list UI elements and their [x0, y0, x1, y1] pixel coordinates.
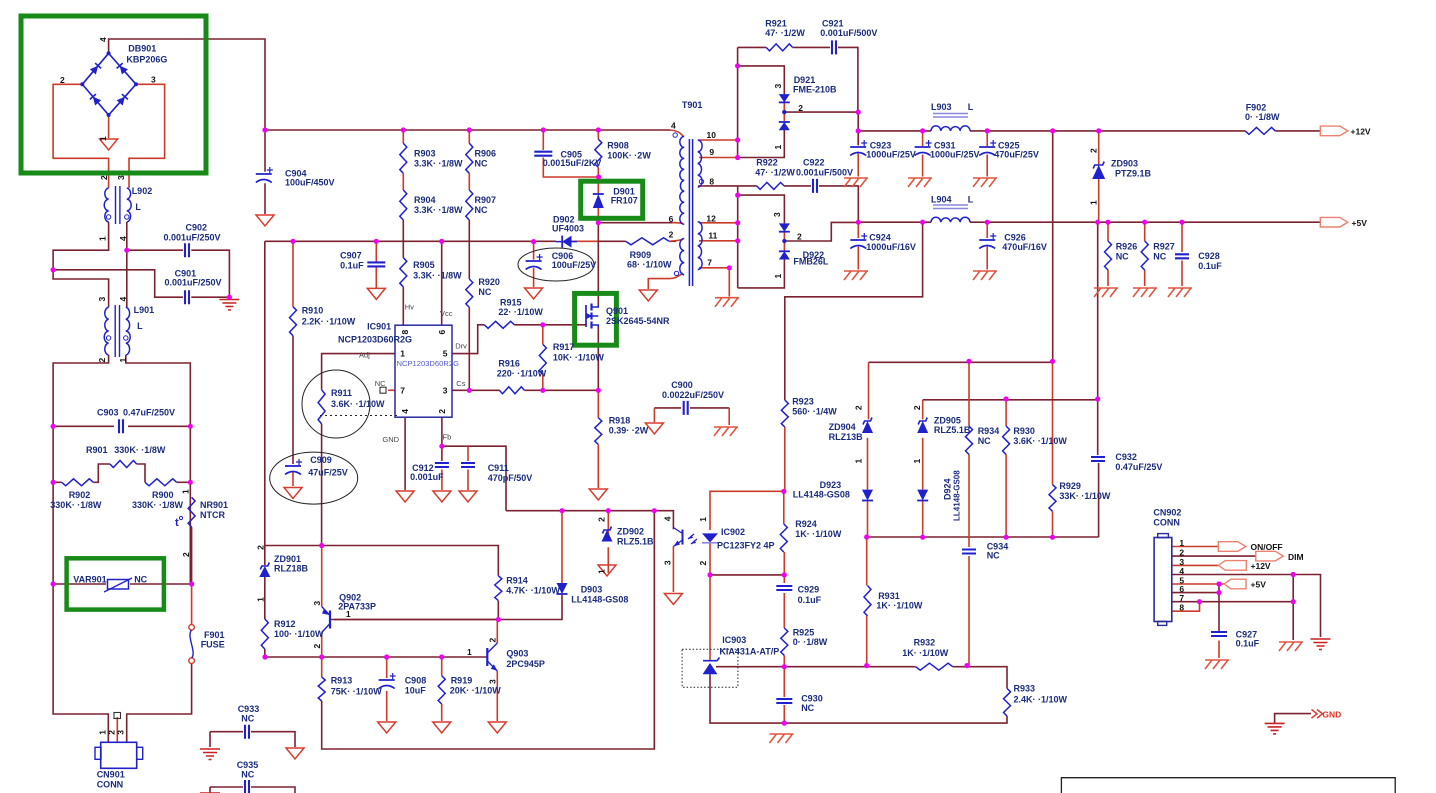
svg-text:3: 3	[151, 75, 156, 85]
svg-text:0.1uF: 0.1uF	[340, 261, 364, 271]
svg-text:R917: R917	[553, 342, 575, 352]
svg-text:NC: NC	[475, 205, 488, 215]
svg-text:1: 1	[1179, 538, 1184, 548]
svg-text:Adj: Adj	[359, 351, 370, 360]
svg-text:ZD903: ZD903	[1111, 158, 1138, 168]
svg-text:C924: C924	[869, 232, 891, 242]
svg-text:F901: F901	[204, 630, 225, 640]
svg-text:3.3K· ·1/8W: 3.3K· ·1/8W	[413, 270, 462, 280]
svg-text:10: 10	[707, 130, 717, 140]
svg-text:IC903: IC903	[722, 635, 746, 645]
svg-text:Vcc: Vcc	[440, 309, 453, 318]
svg-text:R920: R920	[478, 277, 500, 287]
svg-text:1: 1	[181, 489, 191, 494]
svg-text:1: 1	[773, 145, 783, 150]
svg-text:0.47uF/250V: 0.47uF/250V	[123, 408, 175, 418]
svg-text:3.6K· ·1/10W: 3.6K· ·1/10W	[1013, 436, 1067, 446]
svg-text:8: 8	[1179, 603, 1184, 613]
svg-text:560· ·1/4W: 560· ·1/4W	[792, 406, 837, 416]
svg-text:Fb: Fb	[443, 433, 452, 442]
svg-text:10K· ·1/10W: 10K· ·1/10W	[553, 353, 605, 363]
svg-text:+12V: +12V	[1251, 561, 1271, 571]
svg-text:100· ·1/10W: 100· ·1/10W	[274, 629, 324, 639]
svg-text:0.0022uF/250V: 0.0022uF/250V	[662, 390, 724, 400]
svg-text:0.0015uF/2KV: 0.0015uF/2KV	[543, 158, 602, 168]
svg-text:FR107: FR107	[611, 196, 638, 206]
svg-text:20K· ·1/10W: 20K· ·1/10W	[450, 686, 502, 696]
svg-text:CONN: CONN	[1153, 518, 1180, 528]
svg-text:LL4148-GS08: LL4148-GS08	[793, 490, 850, 500]
svg-text:1: 1	[773, 274, 783, 279]
svg-text:2: 2	[912, 405, 922, 410]
svg-text:R930: R930	[1013, 426, 1035, 436]
svg-text:C933: C933	[238, 704, 260, 714]
svg-text:Q901: Q901	[606, 306, 628, 316]
svg-text:47uF/25V: 47uF/25V	[308, 467, 348, 477]
svg-text:2: 2	[797, 232, 802, 242]
svg-text:R927: R927	[1153, 242, 1175, 252]
svg-text:2: 2	[60, 75, 65, 85]
svg-text:L901: L901	[134, 305, 155, 315]
svg-text:NCP1203D60R2G: NCP1203D60R2G	[397, 359, 460, 368]
svg-text:75K· ·1/10W: 75K· ·1/10W	[331, 687, 383, 697]
svg-text:R918: R918	[609, 415, 631, 425]
svg-text:3: 3	[97, 297, 107, 302]
svg-text:2: 2	[97, 358, 107, 363]
svg-text:2: 2	[798, 103, 803, 113]
svg-text:2: 2	[487, 638, 497, 643]
svg-text:R923: R923	[792, 397, 814, 407]
svg-text:1: 1	[698, 517, 708, 522]
svg-text:RLZ5.1B: RLZ5.1B	[934, 425, 971, 435]
svg-text:0.1uF: 0.1uF	[798, 595, 822, 605]
svg-text:Hv: Hv	[405, 303, 414, 312]
svg-text:NC: NC	[241, 770, 254, 780]
svg-text:IC902: IC902	[721, 527, 745, 537]
svg-text:R904: R904	[414, 195, 436, 205]
svg-text:1: 1	[912, 459, 922, 464]
svg-text:4: 4	[663, 516, 673, 521]
svg-text:330K· ·1/8W: 330K· ·1/8W	[114, 445, 166, 455]
svg-text:R934: R934	[978, 426, 1000, 436]
svg-text:R911: R911	[331, 388, 352, 398]
svg-text:KBP206G: KBP206G	[126, 55, 167, 65]
svg-text:R924: R924	[795, 519, 817, 529]
svg-text:47· ·1/2W: 47· ·1/2W	[765, 28, 805, 38]
svg-text:1: 1	[98, 236, 108, 241]
svg-text:2PA733P: 2PA733P	[338, 602, 376, 612]
svg-text:68· ·1/10W: 68· ·1/10W	[627, 260, 672, 270]
svg-text:NC: NC	[987, 551, 1000, 561]
svg-text:KIA431A-AT/P: KIA431A-AT/P	[719, 646, 779, 656]
svg-text:LL4148-GS08: LL4148-GS08	[953, 470, 962, 521]
svg-text:2: 2	[669, 230, 674, 240]
svg-text:VAR901: VAR901	[73, 575, 106, 585]
svg-text:R916: R916	[498, 359, 520, 369]
svg-text:C902: C902	[186, 223, 208, 233]
svg-text:0.1uF: 0.1uF	[1236, 639, 1260, 649]
svg-text:220· ·1/10W: 220· ·1/10W	[497, 369, 547, 379]
svg-text:R905: R905	[413, 260, 435, 270]
svg-text:R921: R921	[765, 18, 787, 28]
svg-text:2.2K· ·1/10W: 2.2K· ·1/10W	[302, 316, 356, 326]
svg-text:CN901: CN901	[97, 770, 125, 780]
svg-text:7: 7	[400, 385, 405, 395]
svg-text:R933: R933	[1014, 683, 1036, 693]
svg-text:330K· ·1/8W: 330K· ·1/8W	[50, 500, 102, 510]
svg-text:8: 8	[400, 330, 410, 335]
svg-text:NC: NC	[134, 575, 147, 585]
svg-text:1K· ·1/10W: 1K· ·1/10W	[876, 601, 923, 611]
svg-text:2: 2	[1089, 148, 1099, 153]
svg-text:R919: R919	[451, 676, 473, 686]
svg-text:1: 1	[853, 459, 863, 464]
svg-text:t: t	[175, 517, 179, 529]
svg-text:RLZ13B: RLZ13B	[829, 432, 864, 442]
svg-text:2: 2	[698, 561, 708, 566]
svg-text:0.001uF: 0.001uF	[410, 472, 444, 482]
svg-text:L: L	[137, 321, 143, 331]
svg-text:1: 1	[118, 358, 128, 363]
svg-text:R926: R926	[1116, 242, 1138, 252]
svg-text:4: 4	[118, 236, 128, 241]
svg-text:3: 3	[312, 601, 322, 606]
svg-text:R909: R909	[630, 250, 652, 260]
svg-text:C921: C921	[822, 18, 844, 28]
svg-text:2: 2	[99, 175, 109, 180]
svg-text:CONN: CONN	[97, 780, 124, 790]
svg-text:+5V: +5V	[1352, 218, 1368, 228]
svg-text:R912: R912	[274, 619, 296, 629]
svg-text:R932: R932	[914, 638, 936, 648]
svg-text:NC: NC	[475, 158, 488, 168]
svg-text:0.1uF: 0.1uF	[1198, 261, 1222, 271]
svg-text:470pF/50V: 470pF/50V	[488, 473, 533, 483]
svg-text:C903: C903	[97, 408, 119, 418]
svg-text:R922: R922	[756, 158, 778, 168]
svg-text:R908: R908	[607, 141, 629, 151]
svg-text:NC: NC	[1153, 252, 1166, 262]
svg-text:3.6K· ·1/10W: 3.6K· ·1/10W	[331, 399, 385, 409]
svg-text:ZD901: ZD901	[274, 554, 301, 564]
svg-text:RLZ5.1B: RLZ5.1B	[617, 537, 654, 547]
svg-text:NC: NC	[478, 287, 491, 297]
svg-text:UF4003: UF4003	[552, 224, 584, 234]
svg-text:2: 2	[853, 405, 863, 410]
svg-text:3: 3	[663, 560, 673, 565]
svg-text:1: 1	[256, 597, 266, 602]
svg-text:0.001uF/250V: 0.001uF/250V	[165, 277, 222, 287]
svg-text:C900: C900	[671, 380, 693, 390]
svg-text:R914: R914	[506, 576, 528, 586]
svg-text:R903: R903	[414, 148, 436, 158]
svg-text:2PC945P: 2PC945P	[506, 659, 545, 669]
svg-text:Drv: Drv	[455, 342, 467, 351]
svg-text:3.3K· ·1/8W: 3.3K· ·1/8W	[414, 205, 463, 215]
svg-text:R929: R929	[1059, 481, 1081, 491]
svg-text:NC: NC	[241, 714, 254, 724]
svg-text:DIM: DIM	[1288, 552, 1304, 562]
svg-text:R901: R901	[86, 445, 108, 455]
svg-text:3: 3	[487, 679, 497, 684]
svg-text:3.3K· ·1/8W: 3.3K· ·1/8W	[414, 158, 463, 168]
svg-text:FMB26L: FMB26L	[793, 257, 829, 267]
svg-text:IC901: IC901	[367, 321, 391, 331]
svg-text:1: 1	[467, 647, 472, 657]
svg-text:2: 2	[437, 409, 447, 414]
svg-text:+5V: +5V	[1251, 580, 1267, 590]
svg-text:L: L	[135, 202, 141, 212]
svg-text:PC123FY2 4P: PC123FY2 4P	[717, 541, 775, 551]
svg-text:ZD904: ZD904	[829, 422, 856, 432]
svg-text:3: 3	[116, 730, 126, 735]
svg-text:R907: R907	[475, 195, 497, 205]
svg-text:F902: F902	[1246, 102, 1267, 112]
svg-text:4: 4	[118, 297, 128, 302]
svg-text:C935: C935	[237, 760, 259, 770]
svg-text:C930: C930	[801, 694, 823, 704]
svg-text:1K· ·1/10W: 1K· ·1/10W	[902, 648, 949, 658]
svg-text:4.7K· ·1/10W: 4.7K· ·1/10W	[506, 586, 560, 596]
svg-text:RLZ18B: RLZ18B	[274, 564, 309, 574]
svg-text:0.001uF/250V: 0.001uF/250V	[164, 232, 221, 242]
svg-text:NCP1203D60R2G: NCP1203D60R2G	[338, 335, 412, 345]
svg-text:470uF/25V: 470uF/25V	[994, 150, 1039, 160]
svg-text:L: L	[968, 102, 974, 112]
svg-text:NR901: NR901	[200, 500, 228, 510]
svg-text:ON/OFF: ON/OFF	[1251, 542, 1283, 552]
svg-text:DB901: DB901	[128, 43, 156, 53]
svg-text:2: 2	[181, 552, 191, 557]
svg-text:1: 1	[1089, 200, 1099, 205]
svg-text:CN902: CN902	[1153, 508, 1181, 518]
svg-text:0.39· ·2W: 0.39· ·2W	[609, 425, 649, 435]
svg-text:4: 4	[400, 409, 410, 414]
svg-text:1: 1	[597, 569, 607, 574]
svg-text:+12V: +12V	[1351, 127, 1371, 137]
svg-text:2: 2	[312, 644, 322, 649]
svg-text:47· ·1/2W: 47· ·1/2W	[755, 168, 795, 178]
svg-text:1K· ·1/10W: 1K· ·1/10W	[795, 529, 842, 539]
svg-text:0.001uF/500V: 0.001uF/500V	[820, 28, 877, 38]
svg-text:GND: GND	[1322, 710, 1341, 720]
svg-text:C926: C926	[1004, 232, 1026, 242]
svg-text:100uF/450V: 100uF/450V	[285, 178, 335, 188]
svg-text:7: 7	[707, 258, 712, 268]
svg-text:Q903: Q903	[506, 648, 528, 658]
svg-text:6: 6	[437, 330, 447, 335]
svg-text:1000uF/25V: 1000uF/25V	[866, 150, 916, 160]
svg-text:5: 5	[443, 349, 448, 359]
svg-text:L904: L904	[931, 194, 952, 204]
svg-text:C922: C922	[803, 158, 825, 168]
svg-text:11: 11	[708, 231, 717, 241]
svg-text:1000uF/25V: 1000uF/25V	[930, 150, 980, 160]
svg-text:C909: C909	[310, 455, 332, 465]
svg-text:ZD902: ZD902	[617, 527, 644, 537]
svg-text:100uF/25V: 100uF/25V	[552, 260, 597, 270]
svg-text:L903: L903	[931, 102, 952, 112]
svg-text:L902: L902	[132, 186, 153, 196]
svg-text:0· ·1/8W: 0· ·1/8W	[793, 637, 828, 647]
svg-text:R910: R910	[302, 306, 324, 316]
svg-text:3: 3	[443, 385, 448, 395]
svg-text:NTCR: NTCR	[200, 510, 225, 520]
svg-text:4: 4	[671, 121, 676, 131]
svg-text:GND: GND	[382, 435, 399, 444]
svg-text:0.47uF/25V: 0.47uF/25V	[1115, 462, 1162, 472]
svg-text:330K· ·1/8W: 330K· ·1/8W	[132, 500, 184, 510]
svg-text:33K· ·1/10W: 33K· ·1/10W	[1059, 491, 1111, 501]
svg-text:T901: T901	[682, 100, 703, 110]
svg-text:6: 6	[669, 214, 674, 224]
svg-text:C932: C932	[1115, 452, 1137, 462]
svg-text:2SK2645-54NR: 2SK2645-54NR	[606, 316, 670, 326]
svg-text:FME-210B: FME-210B	[793, 84, 837, 94]
svg-text:1: 1	[98, 136, 108, 141]
svg-text:NC: NC	[801, 703, 814, 713]
svg-text:4: 4	[1179, 566, 1184, 576]
svg-text:C928: C928	[1198, 251, 1220, 261]
svg-text:470uF/16V: 470uF/16V	[1002, 242, 1047, 252]
svg-text:R902: R902	[69, 490, 91, 500]
svg-text:R931: R931	[878, 591, 900, 601]
svg-text:PTZ9.1B: PTZ9.1B	[1115, 168, 1152, 178]
svg-text:C911: C911	[488, 463, 509, 473]
svg-text:1: 1	[346, 609, 351, 619]
svg-text:7: 7	[1179, 593, 1184, 603]
svg-text:R913: R913	[331, 676, 353, 686]
svg-text:NC: NC	[978, 436, 991, 446]
svg-text:0.001uF/500V: 0.001uF/500V	[796, 168, 853, 178]
svg-text:L: L	[968, 194, 974, 204]
svg-text:C929: C929	[798, 585, 820, 595]
svg-text:R925: R925	[793, 627, 815, 637]
svg-text:FUSE: FUSE	[201, 640, 225, 650]
svg-text:LL4148-GS08: LL4148-GS08	[571, 595, 628, 605]
svg-text:NC: NC	[1116, 252, 1129, 262]
svg-text:ZD905: ZD905	[934, 415, 961, 425]
svg-text:1: 1	[400, 349, 405, 359]
svg-text:3: 3	[772, 212, 782, 217]
svg-text:12: 12	[706, 214, 716, 224]
svg-text:R906: R906	[475, 148, 497, 158]
svg-text:2: 2	[597, 517, 607, 522]
svg-text:2.4K· ·1/10W: 2.4K· ·1/10W	[1014, 694, 1068, 704]
svg-text:0· ·1/8W: 0· ·1/8W	[1245, 112, 1280, 122]
svg-text:8: 8	[709, 176, 714, 186]
svg-text:R900: R900	[152, 490, 174, 500]
svg-text:3: 3	[773, 84, 783, 89]
svg-text:22· ·1/10W: 22· ·1/10W	[498, 307, 543, 317]
svg-text:D903: D903	[581, 585, 603, 595]
svg-text:NC: NC	[375, 379, 386, 388]
svg-text:C908: C908	[405, 676, 427, 686]
svg-text:10uF: 10uF	[405, 686, 427, 696]
svg-text:D924: D924	[943, 478, 953, 500]
svg-text:2: 2	[256, 545, 266, 550]
svg-text:1000uF/16V: 1000uF/16V	[866, 242, 916, 252]
svg-text:4: 4	[98, 37, 108, 42]
svg-text:100K· ·2W: 100K· ·2W	[607, 150, 651, 160]
svg-text:3: 3	[116, 175, 126, 180]
svg-text:C907: C907	[340, 250, 362, 260]
svg-text:9: 9	[709, 147, 714, 157]
svg-text:Cs: Cs	[456, 379, 465, 388]
